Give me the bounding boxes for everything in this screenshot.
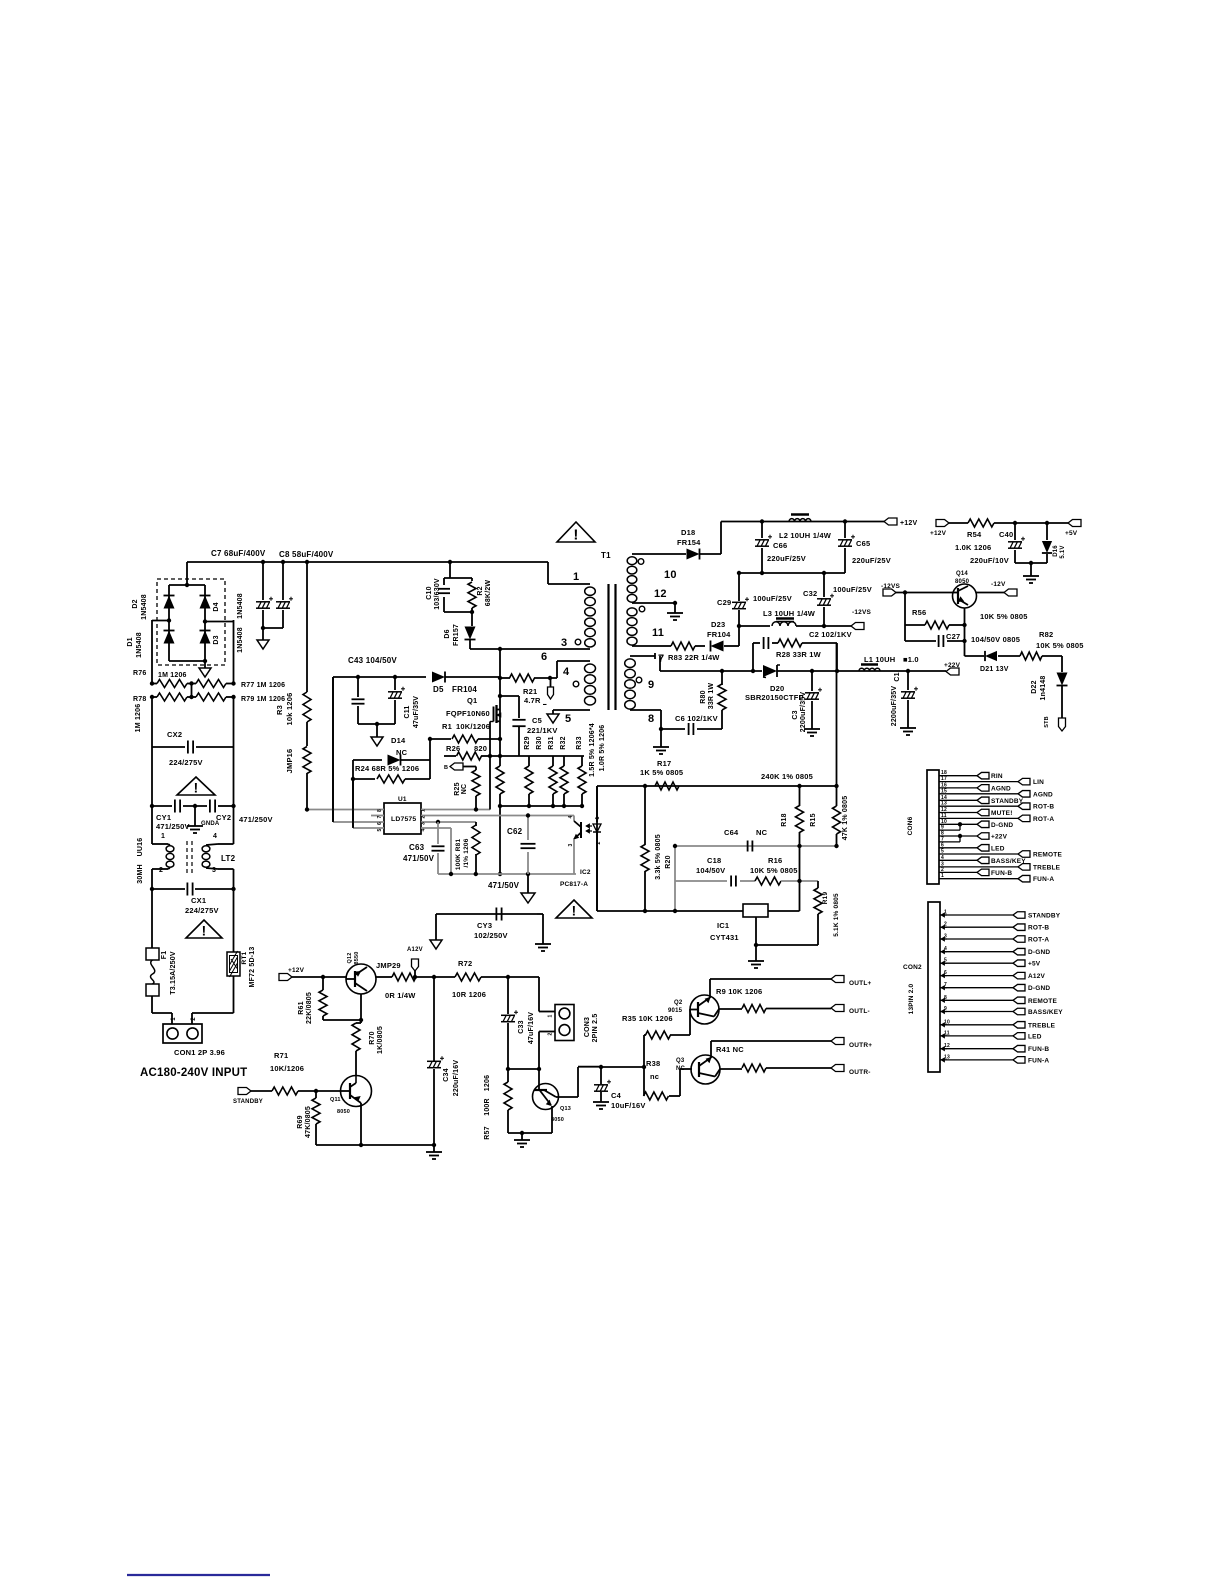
svg-text:D2: D2 — [132, 599, 139, 608]
svg-text:1M 1206: 1M 1206 — [135, 704, 142, 733]
svg-text:100R: 100R — [484, 1098, 491, 1116]
svg-text:C65: C65 — [856, 539, 870, 548]
svg-text:8: 8 — [944, 995, 947, 1001]
svg-text:RIN: RIN — [991, 773, 1003, 780]
svg-text:D6: D6 — [444, 629, 451, 638]
svg-text:SBR20150CTFP: SBR20150CTFP — [745, 693, 804, 702]
svg-text:R54: R54 — [967, 530, 982, 539]
svg-text:NC: NC — [396, 748, 408, 757]
svg-text:471/50V: 471/50V — [403, 854, 435, 863]
svg-text:OUTR-: OUTR- — [849, 1069, 871, 1076]
svg-text:33R 1W: 33R 1W — [708, 683, 715, 710]
svg-text:R20: R20 — [665, 855, 672, 868]
svg-text:5: 5 — [565, 713, 571, 725]
svg-text:6: 6 — [941, 842, 944, 848]
svg-text:C4: C4 — [611, 1091, 622, 1100]
svg-text:FUN-B: FUN-B — [1028, 1046, 1049, 1053]
svg-text:R29: R29 — [524, 736, 531, 749]
svg-text:D18: D18 — [681, 528, 695, 537]
svg-text:2: 2 — [941, 867, 944, 873]
svg-text:10R 1206: 10R 1206 — [452, 990, 486, 999]
svg-text:R32: R32 — [560, 736, 567, 749]
svg-text:7: 7 — [944, 982, 947, 988]
svg-text:!: ! — [573, 527, 578, 544]
svg-text:R79 1M 1206: R79 1M 1206 — [241, 696, 285, 703]
svg-text:220uF/10V: 220uF/10V — [970, 556, 1009, 565]
svg-text:100uF/25V: 100uF/25V — [833, 585, 872, 594]
svg-text:D22: D22 — [1031, 680, 1038, 693]
svg-text:R30: R30 — [536, 736, 543, 749]
svg-text:D21 13V: D21 13V — [980, 666, 1009, 673]
svg-text:1N5408: 1N5408 — [237, 627, 244, 653]
svg-text:224/275V: 224/275V — [169, 758, 203, 767]
svg-text:13: 13 — [941, 801, 947, 807]
svg-text:4: 4 — [941, 855, 944, 861]
svg-text:R2: R2 — [477, 586, 484, 595]
svg-text:BASS/KEY: BASS/KEY — [1028, 1009, 1063, 1016]
svg-text:R35 10K 1206: R35 10K 1206 — [622, 1014, 673, 1023]
svg-text:T3.15A/250V: T3.15A/250V — [170, 951, 177, 995]
svg-text:CY1: CY1 — [156, 813, 171, 822]
svg-text:1: 1 — [161, 833, 165, 840]
svg-text:D5: D5 — [433, 685, 444, 694]
svg-text:OUTR+: OUTR+ — [849, 1042, 872, 1049]
svg-text:-12V: -12V — [991, 581, 1006, 588]
svg-text:NC: NC — [461, 784, 468, 795]
svg-text:LED: LED — [991, 845, 1005, 852]
svg-text:R71: R71 — [274, 1051, 288, 1060]
svg-text:820: 820 — [474, 744, 487, 753]
svg-text:+5V: +5V — [1028, 961, 1041, 968]
svg-text:10K/1206: 10K/1206 — [270, 1064, 304, 1073]
svg-text:+12V: +12V — [288, 967, 305, 974]
svg-text:R41 NC: R41 NC — [716, 1045, 744, 1054]
svg-text:5: 5 — [941, 849, 944, 855]
svg-text:IC1: IC1 — [717, 921, 729, 930]
svg-text:+22V: +22V — [991, 834, 1008, 841]
svg-text:11: 11 — [944, 1030, 950, 1036]
svg-text:1M 1206: 1M 1206 — [158, 672, 187, 679]
svg-text:A12V: A12V — [407, 947, 423, 953]
svg-text:ROT-B: ROT-B — [1028, 925, 1049, 932]
svg-text:R17: R17 — [657, 759, 671, 768]
svg-text:3: 3 — [421, 822, 427, 825]
svg-text:4: 4 — [563, 666, 570, 678]
svg-text:1K/0805: 1K/0805 — [377, 1026, 384, 1054]
svg-text:RT1: RT1 — [241, 951, 248, 964]
svg-text:FUN-A: FUN-A — [1033, 876, 1054, 883]
svg-text:!: ! — [572, 904, 577, 919]
svg-text:240K 1% 0805: 240K 1% 0805 — [761, 772, 813, 781]
svg-text:1N5408: 1N5408 — [141, 594, 148, 620]
svg-text:R56: R56 — [912, 608, 926, 617]
svg-text:15: 15 — [941, 788, 947, 794]
svg-text:C63: C63 — [409, 843, 425, 852]
svg-text:R16: R16 — [768, 856, 782, 865]
svg-text:AGND: AGND — [1033, 791, 1053, 798]
svg-text:LED: LED — [1028, 1033, 1042, 1040]
svg-text:C34: C34 — [443, 1068, 450, 1081]
svg-text:1K 5% 0805: 1K 5% 0805 — [640, 768, 683, 777]
svg-text:STANDBY: STANDBY — [991, 798, 1024, 805]
svg-text:C6 102/1KV: C6 102/1KV — [675, 714, 718, 723]
svg-text:10: 10 — [664, 569, 677, 581]
svg-text:C5: C5 — [532, 716, 542, 725]
svg-text:LT2: LT2 — [221, 854, 236, 863]
svg-text:D14: D14 — [391, 736, 406, 745]
svg-text:F1: F1 — [161, 951, 168, 960]
svg-text:D20: D20 — [770, 684, 784, 693]
svg-text:R3: R3 — [275, 705, 284, 715]
svg-text:D1: D1 — [127, 637, 134, 646]
svg-text:R24 68R 5% 1206: R24 68R 5% 1206 — [355, 764, 419, 773]
svg-text:LD7575: LD7575 — [391, 816, 416, 823]
svg-text:5: 5 — [377, 828, 383, 831]
svg-text:103/630V: 103/630V — [434, 578, 441, 610]
svg-text:L1 10UH: L1 10UH — [864, 655, 895, 664]
svg-text:3: 3 — [568, 843, 574, 846]
svg-text:D4: D4 — [213, 602, 220, 611]
svg-text:C43 104/50V: C43 104/50V — [348, 656, 397, 665]
svg-text:10K 5% 0805: 10K 5% 0805 — [750, 866, 798, 875]
svg-text:R61: R61 — [298, 1001, 305, 1014]
svg-text:7: 7 — [377, 815, 383, 818]
svg-text:FR154: FR154 — [677, 538, 701, 547]
svg-text:100uF/25V: 100uF/25V — [753, 594, 792, 603]
svg-text:UU16: UU16 — [137, 838, 144, 857]
svg-text:100K: 100K — [455, 854, 462, 870]
svg-text:T1: T1 — [601, 551, 611, 560]
svg-text:47uF/16V: 47uF/16V — [528, 1012, 535, 1044]
svg-text:OUTL-: OUTL- — [849, 1008, 870, 1015]
svg-text:C27: C27 — [946, 632, 960, 641]
svg-text:C64: C64 — [724, 828, 739, 837]
svg-text:C40: C40 — [999, 530, 1013, 539]
svg-text:471/250V: 471/250V — [156, 822, 190, 831]
svg-text:IC2: IC2 — [580, 869, 591, 876]
svg-text:224/275V: 224/275V — [185, 906, 219, 915]
svg-text:D23: D23 — [711, 620, 725, 629]
svg-text:3: 3 — [944, 934, 947, 940]
svg-text:10K 5% 0805: 10K 5% 0805 — [1036, 641, 1084, 650]
svg-text:4: 4 — [944, 946, 947, 952]
svg-text:C32: C32 — [803, 589, 817, 598]
svg-text:C62: C62 — [507, 827, 523, 836]
svg-text:1: 1 — [171, 1017, 177, 1021]
svg-text:47K/0805: 47K/0805 — [305, 1106, 312, 1138]
svg-text:CX2: CX2 — [167, 730, 182, 739]
svg-text:■1.0: ■1.0 — [903, 655, 919, 664]
svg-text:12: 12 — [944, 1043, 950, 1049]
svg-text:+22V: +22V — [944, 662, 961, 669]
svg-text:30MH: 30MH — [137, 864, 144, 883]
svg-text:R1: R1 — [442, 722, 452, 731]
svg-text:8: 8 — [377, 809, 383, 812]
svg-text:R15: R15 — [810, 813, 817, 826]
svg-text:STB: STB — [1044, 716, 1050, 728]
svg-text:4: 4 — [568, 815, 574, 818]
svg-text:D16: D16 — [1053, 545, 1059, 557]
svg-text:C7 68uF/400V: C7 68uF/400V — [211, 549, 266, 558]
svg-text:68K/2W: 68K/2W — [485, 580, 492, 607]
svg-text:C33: C33 — [518, 1020, 525, 1033]
svg-text:R21: R21 — [523, 687, 537, 696]
svg-text:8050: 8050 — [337, 1109, 350, 1115]
svg-text:2: 2 — [159, 867, 163, 874]
svg-text:MF72 5D-13: MF72 5D-13 — [249, 947, 256, 988]
svg-text:R83 22R 1/4W: R83 22R 1/4W — [668, 653, 720, 662]
svg-text:R18: R18 — [781, 813, 788, 826]
svg-text:+5V: +5V — [1065, 530, 1078, 537]
svg-text:R38: R38 — [646, 1059, 660, 1068]
svg-text:C1: C1 — [894, 672, 901, 681]
svg-text:▬: ▬ — [543, 702, 547, 706]
svg-text:nc: nc — [650, 1072, 659, 1081]
svg-text:220uF/16V: 220uF/16V — [453, 1060, 460, 1097]
svg-text:-12VS: -12VS — [852, 609, 872, 616]
svg-text:REMOTE: REMOTE — [1028, 998, 1057, 1005]
svg-text:MUTE!: MUTE! — [991, 810, 1013, 817]
svg-text:D3: D3 — [213, 635, 220, 644]
svg-text:471/250V: 471/250V — [239, 815, 273, 824]
svg-text:R69: R69 — [297, 1115, 304, 1128]
svg-text:8050: 8050 — [551, 1117, 564, 1123]
svg-text:1206: 1206 — [484, 1075, 491, 1091]
svg-text:1.5R 5% 1206*4: 1.5R 5% 1206*4 — [589, 723, 596, 777]
svg-text:PC817-A: PC817-A — [560, 881, 588, 888]
svg-text:FR104: FR104 — [707, 630, 731, 639]
svg-text:CY3: CY3 — [477, 921, 492, 930]
svg-text:1.0K 1206: 1.0K 1206 — [955, 543, 991, 552]
svg-text:11: 11 — [652, 627, 664, 639]
svg-text:Q12: Q12 — [347, 953, 353, 964]
svg-text:CON6: CON6 — [907, 816, 914, 835]
svg-text:R28 33R 1W: R28 33R 1W — [776, 650, 822, 659]
svg-text:C11: C11 — [404, 705, 411, 718]
svg-text:104/50V 0805: 104/50V 0805 — [971, 635, 1020, 644]
svg-text:1: 1 — [573, 571, 579, 583]
svg-text:C2 102/1KV: C2 102/1KV — [809, 630, 852, 639]
svg-text:CX1: CX1 — [191, 896, 206, 905]
svg-text:ROT-B: ROT-B — [1033, 804, 1054, 811]
svg-text:!: ! — [202, 924, 207, 939]
svg-text:R25: R25 — [454, 782, 461, 795]
svg-text:CON3: CON3 — [584, 1017, 591, 1037]
svg-text:2200uF/35V: 2200uF/35V — [891, 686, 898, 727]
svg-text:Q2: Q2 — [674, 1000, 683, 1006]
svg-text:4: 4 — [213, 833, 217, 840]
svg-text:3: 3 — [561, 637, 567, 649]
svg-text:9: 9 — [944, 1006, 947, 1012]
svg-text:1.0R 5% 1206: 1.0R 5% 1206 — [599, 725, 606, 772]
svg-text:Q13: Q13 — [560, 1106, 571, 1112]
svg-text:220uF/25V: 220uF/25V — [767, 554, 806, 563]
svg-text:BASS/KEY: BASS/KEY — [991, 858, 1026, 865]
svg-text:R78: R78 — [133, 696, 146, 703]
svg-text:ROT-A: ROT-A — [1028, 937, 1049, 944]
svg-text:STANDBY: STANDBY — [233, 1099, 263, 1105]
svg-text:Q11: Q11 — [330, 1097, 341, 1103]
svg-text:GNDA: GNDA — [201, 821, 220, 827]
svg-text:3.3k 5% 0805: 3.3k 5% 0805 — [655, 834, 662, 880]
svg-text:10k 1206: 10k 1206 — [285, 693, 294, 726]
svg-text:2: 2 — [421, 815, 427, 818]
svg-text:REMOTE: REMOTE — [1033, 852, 1062, 859]
svg-text:1: 1 — [421, 809, 427, 812]
svg-text:10uF/16V: 10uF/16V — [611, 1101, 646, 1110]
svg-text:D-GND: D-GND — [1028, 949, 1050, 956]
svg-text:R9 10K 1206: R9 10K 1206 — [716, 987, 762, 996]
svg-text:47K 1% 0805: 47K 1% 0805 — [842, 796, 849, 841]
svg-text:L2 10UH 1/4W: L2 10UH 1/4W — [779, 531, 832, 540]
svg-text:12: 12 — [654, 588, 667, 600]
svg-text:8050: 8050 — [955, 579, 970, 585]
svg-text:104/50V: 104/50V — [696, 866, 725, 875]
svg-text:JMP16: JMP16 — [285, 749, 294, 774]
svg-text:AGND: AGND — [991, 785, 1011, 792]
svg-text:4.7R: 4.7R — [524, 696, 541, 705]
svg-text:CON2: CON2 — [903, 964, 922, 971]
svg-text:+12V: +12V — [930, 530, 947, 537]
svg-text:B: B — [444, 765, 448, 771]
svg-text:OUTL+: OUTL+ — [849, 980, 872, 987]
svg-text:TREBLE: TREBLE — [1033, 864, 1061, 871]
svg-text:R33: R33 — [576, 736, 583, 749]
svg-text:C10: C10 — [426, 586, 433, 599]
svg-text:JMP29: JMP29 — [376, 961, 401, 970]
svg-text:FR157: FR157 — [453, 624, 460, 646]
svg-text:ROT-A: ROT-A — [1033, 816, 1054, 823]
svg-text:+12V: +12V — [900, 520, 917, 527]
svg-text:10K 5% 0805: 10K 5% 0805 — [980, 612, 1028, 621]
svg-text:R81: R81 — [455, 839, 462, 852]
svg-text:FQPF10N60: FQPF10N60 — [446, 709, 490, 718]
svg-text:STANDBY: STANDBY — [1028, 913, 1061, 920]
svg-text:R57: R57 — [484, 1126, 491, 1139]
svg-text:D-GND: D-GND — [991, 822, 1013, 829]
svg-text:R19: R19 — [822, 892, 829, 905]
svg-text:220uF/25V: 220uF/25V — [852, 556, 891, 565]
svg-text:1: 1 — [941, 873, 944, 879]
svg-text:Q14: Q14 — [956, 571, 968, 577]
svg-text:7: 7 — [658, 653, 664, 665]
svg-text:1N5408: 1N5408 — [136, 632, 143, 658]
svg-text:17: 17 — [941, 776, 947, 782]
svg-text:6: 6 — [944, 970, 947, 976]
svg-text:13: 13 — [944, 1054, 950, 1060]
svg-text:C18: C18 — [707, 856, 721, 865]
svg-text:R80: R80 — [700, 690, 707, 703]
svg-text:5.1V: 5.1V — [1060, 545, 1066, 558]
svg-text:CON1 2P 3.96: CON1 2P 3.96 — [174, 1048, 225, 1057]
svg-text:22K/0805: 22K/0805 — [306, 992, 313, 1024]
svg-text:AC180-240V INPUT: AC180-240V INPUT — [140, 1067, 247, 1079]
svg-text:8550: 8550 — [354, 951, 360, 964]
svg-text:CYT431: CYT431 — [710, 933, 739, 942]
svg-text:C3: C3 — [792, 710, 799, 719]
svg-text:FUN-B: FUN-B — [991, 870, 1012, 877]
svg-text:2: 2 — [944, 922, 947, 928]
svg-text:5.1K 1% 0805: 5.1K 1% 0805 — [833, 893, 840, 937]
svg-text:NC: NC — [756, 828, 768, 837]
svg-text:C29: C29 — [717, 598, 731, 607]
svg-text:!: ! — [194, 781, 199, 796]
svg-text:R31: R31 — [548, 736, 555, 749]
svg-text:6: 6 — [541, 651, 547, 663]
svg-text:2PIN 2.5: 2PIN 2.5 — [592, 1014, 599, 1043]
svg-text:5: 5 — [944, 958, 947, 964]
svg-text:4: 4 — [421, 828, 427, 831]
svg-text:R77 1M 1206: R77 1M 1206 — [241, 682, 285, 689]
svg-text:FUN-A: FUN-A — [1028, 1057, 1049, 1064]
svg-text:1n4148: 1n4148 — [1040, 676, 1047, 701]
svg-text:NC: NC — [676, 1066, 686, 1072]
svg-text:3: 3 — [212, 867, 216, 874]
svg-text:9: 9 — [648, 679, 654, 691]
svg-text:8: 8 — [648, 713, 654, 725]
svg-text:47uF/35V: 47uF/35V — [413, 696, 420, 728]
svg-text:C66: C66 — [773, 541, 787, 550]
svg-text:R82: R82 — [1039, 630, 1053, 639]
svg-text:2200uF/35V: 2200uF/35V — [800, 692, 807, 733]
svg-text:Q3: Q3 — [676, 1058, 685, 1064]
svg-text:D-GND: D-GND — [1028, 985, 1050, 992]
svg-text:1: 1 — [548, 1014, 554, 1017]
svg-text:0R 1/4W: 0R 1/4W — [385, 991, 416, 1000]
svg-text:9015: 9015 — [668, 1008, 683, 1014]
svg-text:TREBLE: TREBLE — [1028, 1022, 1056, 1029]
svg-text:2: 2 — [548, 1032, 554, 1035]
svg-text:13PIN 2.0: 13PIN 2.0 — [908, 983, 915, 1014]
svg-text:LIN: LIN — [1033, 779, 1044, 786]
svg-text:221/1KV: 221/1KV — [527, 726, 558, 735]
svg-text:1N5408: 1N5408 — [237, 593, 244, 619]
svg-text:2: 2 — [191, 1017, 197, 1021]
svg-text:R76: R76 — [133, 670, 146, 677]
svg-text:A12V: A12V — [1028, 973, 1046, 980]
svg-text:C8 58uF/400V: C8 58uF/400V — [279, 550, 334, 559]
svg-text:102/250V: 102/250V — [474, 931, 508, 940]
svg-text:Q1: Q1 — [467, 696, 477, 705]
svg-text:R72: R72 — [458, 959, 472, 968]
svg-text:FR104: FR104 — [452, 685, 477, 694]
svg-text:U1: U1 — [398, 796, 407, 803]
svg-text:L3 10UH 1/4W: L3 10UH 1/4W — [763, 609, 816, 618]
svg-text:R70: R70 — [369, 1031, 376, 1044]
svg-text:10K/1206: 10K/1206 — [456, 722, 490, 731]
svg-text:1: 1 — [944, 910, 947, 916]
svg-text:6: 6 — [377, 822, 383, 825]
svg-text:10: 10 — [944, 1019, 950, 1025]
svg-text:/1% 1206: /1% 1206 — [463, 838, 470, 867]
svg-text:471/50V: 471/50V — [488, 881, 520, 890]
svg-text:R26: R26 — [446, 744, 460, 753]
svg-text:1: 1 — [595, 816, 601, 819]
